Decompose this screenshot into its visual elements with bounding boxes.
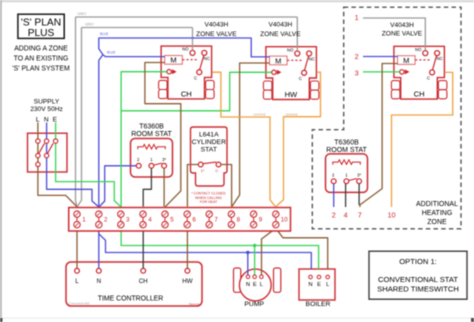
svg-text:ORANGE: ORANGE (286, 112, 298, 116)
svg-text:1: 1 (82, 217, 86, 224)
svg-text:ADDING A ZONE: ADDING A ZONE (14, 46, 68, 53)
svg-text:ZONE: ZONE (427, 219, 447, 226)
svg-text:CONVENTIONAL STAT: CONVENTIONAL STAT (378, 275, 458, 284)
svg-text:STAT: STAT (201, 146, 217, 153)
svg-text:9: 9 (259, 217, 263, 224)
svg-text:2: 2 (355, 52, 359, 61)
svg-text:4: 4 (344, 211, 348, 220)
svg-text:'S' PLAN: 'S' PLAN (21, 18, 61, 29)
svg-text:ORANGE: ORANGE (254, 113, 266, 117)
svg-text:ROOM STAT: ROOM STAT (326, 147, 367, 154)
svg-text:ADDITIONAL: ADDITIONAL (416, 201, 458, 208)
svg-text:3: 3 (126, 217, 130, 224)
svg-text:E: E (317, 282, 321, 288)
svg-text:230V 50Hz: 230V 50Hz (30, 106, 63, 113)
svg-text:V4043H: V4043H (204, 21, 228, 28)
svg-text:PLUS: PLUS (28, 28, 55, 39)
svg-text:GREY: GREY (85, 22, 95, 26)
svg-text:6: 6 (192, 217, 196, 224)
svg-text:4: 4 (148, 217, 152, 224)
svg-text:N: N (246, 282, 250, 288)
svg-text:CH: CH (181, 89, 192, 98)
svg-text:E: E (253, 282, 257, 288)
svg-text:© FlameSoft 2005: © FlameSoft 2005 (69, 302, 90, 306)
svg-text:10: 10 (281, 217, 288, 224)
svg-text:3: 3 (355, 68, 359, 77)
svg-text:HW: HW (182, 278, 192, 285)
svg-text:7: 7 (358, 211, 362, 220)
svg-text:FOR HEAT: FOR HEAT (200, 200, 218, 204)
svg-text:1*: 1* (201, 168, 205, 173)
svg-text:BLUE: BLUE (107, 51, 115, 55)
svg-text:V4043H: V4043H (268, 21, 292, 28)
svg-text:'S' PLAN SYSTEM: 'S' PLAN SYSTEM (12, 66, 70, 73)
svg-text:L641A: L641A (199, 131, 219, 138)
svg-text:L: L (36, 117, 40, 124)
svg-text:CYLINDER: CYLINDER (192, 139, 226, 146)
svg-text:2: 2 (332, 211, 336, 220)
svg-text:Flame.bp: Flame.bp (189, 302, 200, 306)
svg-text:2: 2 (104, 217, 108, 224)
svg-text:PUMP: PUMP (244, 301, 264, 308)
svg-text:8: 8 (237, 217, 241, 224)
svg-text:HEATING: HEATING (422, 210, 453, 217)
svg-text:SUPPLY: SUPPLY (34, 99, 60, 106)
svg-text:N: N (97, 278, 101, 285)
svg-text:SHARED TIMESWITCH: SHARED TIMESWITCH (377, 284, 459, 293)
svg-text:7: 7 (214, 217, 218, 224)
svg-text:TIME CONTROLLER: TIME CONTROLLER (98, 296, 163, 303)
svg-text:ROOM STAT: ROOM STAT (131, 131, 172, 138)
svg-text:N: N (44, 117, 49, 124)
svg-text:GREY: GREY (78, 12, 88, 16)
svg-text:ZONE VALVE: ZONE VALVE (196, 31, 237, 38)
svg-text:C: C (215, 168, 218, 173)
svg-text:CH: CH (139, 278, 148, 285)
svg-text:10: 10 (388, 211, 396, 220)
svg-text:T6360B: T6360B (139, 123, 164, 130)
svg-text:ZONE VALVE: ZONE VALVE (260, 31, 301, 38)
svg-text:T6360B: T6360B (334, 139, 359, 146)
svg-text:1: 1 (355, 13, 359, 22)
svg-text:HW: HW (285, 90, 298, 99)
svg-text:OPTION 1:: OPTION 1: (399, 257, 437, 266)
svg-text:ZONE VALVE: ZONE VALVE (382, 30, 423, 37)
svg-text:E: E (53, 117, 58, 124)
svg-text:TO AN EXISTING: TO AN EXISTING (14, 56, 69, 63)
svg-text:BOILER: BOILER (306, 301, 331, 308)
svg-text:5: 5 (170, 217, 174, 224)
svg-text:BLUE: BLUE (100, 32, 108, 36)
svg-text:L: L (75, 278, 79, 285)
svg-text:V4043H: V4043H (390, 22, 414, 29)
svg-text:N: N (308, 282, 312, 288)
svg-text:CH: CH (414, 90, 425, 99)
